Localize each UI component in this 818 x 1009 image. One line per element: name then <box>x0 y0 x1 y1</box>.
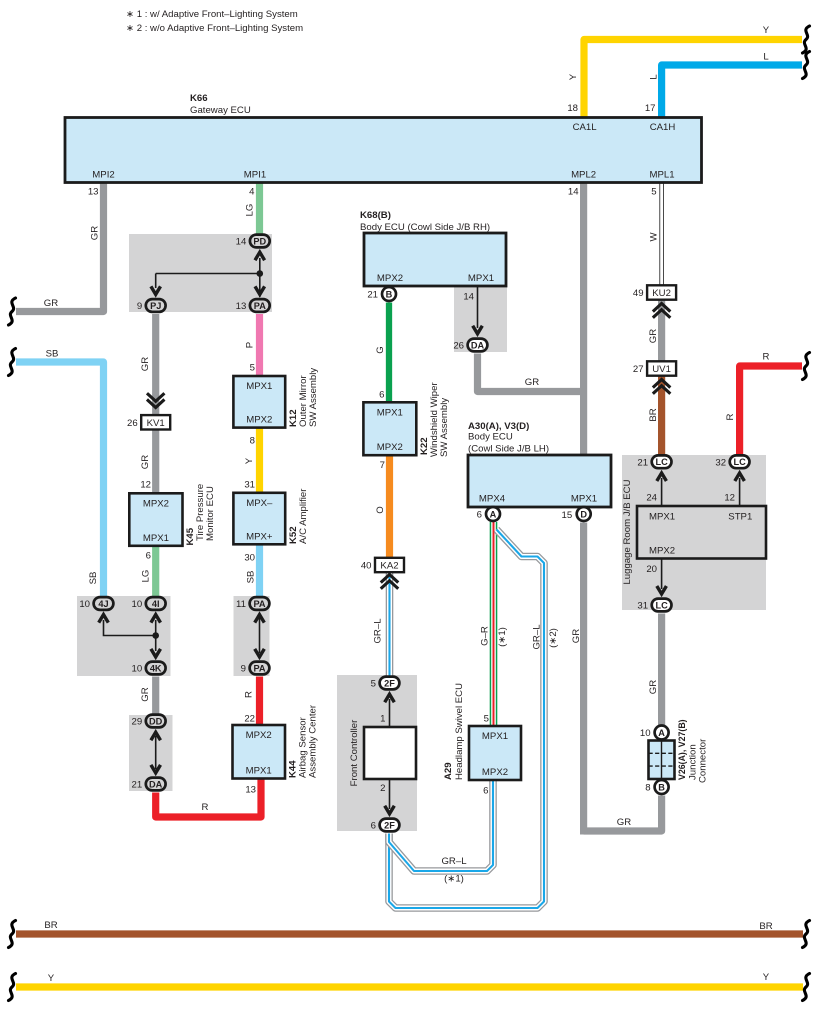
svg-text:B: B <box>658 782 665 792</box>
svg-text:13: 13 <box>236 301 247 312</box>
node 4I to 4J/4K distribution lines <box>99 615 161 657</box>
shield box of Luggage Room J/B ECU <box>622 455 766 610</box>
svg-text:2F: 2F <box>384 820 395 830</box>
wire GR through junction connector V26/V27 <box>658 740 665 780</box>
svg-text:G–R: G–R <box>480 626 491 646</box>
svg-text:30: 30 <box>244 553 255 564</box>
svg-text:14: 14 <box>236 237 247 248</box>
svg-text:R: R <box>244 691 255 698</box>
connector DA 21 <box>132 778 166 791</box>
svg-text:MPX1: MPX1 <box>246 766 272 777</box>
svg-text:MPX2: MPX2 <box>649 546 675 557</box>
line Luggage MPX2 pin 20 to LC 31 <box>646 559 666 595</box>
svg-text:R: R <box>202 802 209 813</box>
connector UV1 27 <box>633 361 676 392</box>
svg-text:13: 13 <box>245 785 256 796</box>
node PD to PJ/PA distribution lines <box>151 252 265 297</box>
connector 2F 6 <box>371 819 400 832</box>
connector LC 21 <box>637 455 671 468</box>
junction connector V26(A)/V27(B) box <box>649 719 709 783</box>
svg-text:Front Controller: Front Controller <box>349 719 360 786</box>
svg-text:L: L <box>763 52 769 63</box>
svg-text:26: 26 <box>127 418 138 429</box>
luggage room J/B ECU inner box <box>622 479 766 584</box>
wire GR from connector DA 26 joining MPL2 branch <box>478 354 584 392</box>
svg-text:21: 21 <box>367 290 378 301</box>
svg-text:12: 12 <box>140 480 151 491</box>
svg-text:(∗1): (∗1) <box>444 874 464 885</box>
svg-text:L: L <box>649 74 660 80</box>
svg-text:CA1L: CA1L <box>573 122 598 133</box>
svg-text:MPX2: MPX2 <box>482 767 508 778</box>
wire GR from MPL2 pin 14 to Body ECU LH <box>568 183 584 455</box>
svg-text:9: 9 <box>137 301 142 312</box>
connector PJ 9 <box>137 299 166 312</box>
wire GR-L (*2) from connector A to Front Controller 2F 6 <box>389 530 559 909</box>
svg-text:9: 9 <box>241 664 246 675</box>
svg-text:BR: BR <box>44 920 57 931</box>
svg-text:K68(B): K68(B) <box>360 210 391 221</box>
svg-text:Connector: Connector <box>698 738 709 783</box>
svg-text:GR: GR <box>140 357 151 371</box>
wire GR from connector PJ to KV1 and K45 pin 12 <box>140 314 156 492</box>
connector DA 26 <box>453 339 487 352</box>
svg-text:6: 6 <box>379 390 384 401</box>
svg-text:CA1H: CA1H <box>650 122 676 133</box>
wire G-R from connector A 6 to A29 pin 5 <box>480 522 509 725</box>
connector PD 14 <box>236 235 270 248</box>
wire O (orange) from K22 pin 7 to KA2 <box>375 456 390 560</box>
line Luggage MPX1 pin 24 to LC 21 <box>646 473 666 506</box>
svg-text:DA: DA <box>149 779 163 789</box>
svg-text:1: 1 <box>380 714 385 725</box>
svg-text:KU2: KU2 <box>652 288 671 299</box>
svg-text:MPI1: MPI1 <box>244 170 266 181</box>
wire Y (yellow) to CA1L pin 18 <box>567 25 802 118</box>
connector 4I 10 <box>132 597 166 610</box>
svg-text:15: 15 <box>562 510 573 521</box>
svg-text:DD: DD <box>149 716 163 726</box>
wire BR (brown) from UV1 to connector LC 21 <box>648 376 662 455</box>
line between connectors PA 11 and PA 9 <box>255 615 265 657</box>
wire P (pink) from connector PA 13 to K12 pin 5 <box>245 314 260 375</box>
connector DD 29 <box>132 715 166 728</box>
wire GR from connector D 15 down to junction wire <box>562 510 584 835</box>
svg-text:A/C Amplifier: A/C Amplifier <box>298 488 309 544</box>
shield box around PA(11)/PA(9) junction <box>234 596 270 676</box>
svg-text:LC: LC <box>655 600 668 610</box>
svg-text:P: P <box>245 342 256 348</box>
svg-text:MPI2: MPI2 <box>92 170 114 181</box>
svg-text:Assembly Center: Assembly Center <box>308 704 319 778</box>
svg-text:5: 5 <box>484 714 489 725</box>
wire W (white) from MPL1 pin 5 to KU2 <box>649 183 662 286</box>
svg-text:5: 5 <box>371 679 376 690</box>
svg-text:5: 5 <box>250 363 255 374</box>
svg-text:GR: GR <box>525 377 539 388</box>
svg-text:MPX1: MPX1 <box>649 512 675 523</box>
svg-text:SW Assembly: SW Assembly <box>308 368 319 427</box>
outer mirror SW assembly K12 box <box>233 368 319 428</box>
connector LC 31 <box>637 599 671 612</box>
break symbol left end of Y rail <box>9 974 16 1001</box>
connector KU2 49 <box>633 285 676 316</box>
break symbol right end of L wire <box>803 52 810 79</box>
line K68 pin 14 to connector DA 26 <box>463 287 482 334</box>
svg-text:SB: SB <box>246 571 257 584</box>
svg-text:6: 6 <box>477 510 482 521</box>
svg-text:32: 32 <box>715 457 726 468</box>
wire SB from K52 pin 30 to connector PA 11 <box>244 545 259 597</box>
front controller inner box <box>349 719 416 786</box>
svg-text:Gateway ECU: Gateway ECU <box>190 105 251 116</box>
wire GR-L (*1) from Front Controller 2F 6 to A29 pin 6 <box>389 781 493 885</box>
svg-text:6: 6 <box>371 821 376 832</box>
svg-text:MPX2: MPX2 <box>246 415 272 426</box>
svg-text:MPX2: MPX2 <box>246 730 272 741</box>
airbag sensor assembly center K44 box <box>233 704 319 778</box>
svg-text:∗ 2 : w/o Adaptive Front–Light: ∗ 2 : w/o Adaptive Front–Lighting System <box>126 23 303 34</box>
connector PA 11 <box>236 597 269 610</box>
svg-text:31: 31 <box>637 601 648 612</box>
svg-text:27: 27 <box>633 364 644 375</box>
svg-text:29: 29 <box>132 717 143 728</box>
svg-text:2F: 2F <box>384 678 395 688</box>
shield box around PD/PJ/PA junction <box>129 234 272 312</box>
svg-text:4I: 4I <box>152 599 160 609</box>
svg-text:Monitor ECU: Monitor ECU <box>205 486 216 541</box>
line Front Controller pin 2 to 2F 6 <box>380 779 394 814</box>
svg-text:Y: Y <box>568 73 579 80</box>
svg-text:7: 7 <box>380 460 385 471</box>
svg-text:12: 12 <box>724 493 735 504</box>
connector B 21 <box>367 287 396 301</box>
svg-text:GR: GR <box>140 455 151 469</box>
wire LG from MPI1 pin 4 to connector PD <box>245 183 260 235</box>
svg-text:MPX1: MPX1 <box>571 494 597 505</box>
svg-text:MPX–: MPX– <box>246 498 273 509</box>
svg-text:(Cowl Side J/B LH): (Cowl Side J/B LH) <box>468 444 549 455</box>
shield box around DA(26) junction <box>454 286 507 352</box>
svg-text:14: 14 <box>568 187 579 198</box>
wire GR from MPI2 pin 13 to left break <box>16 183 104 312</box>
headlamp swivel ECU A29 box <box>443 683 521 780</box>
svg-text:PA: PA <box>253 663 265 673</box>
svg-text:V26(A), V27(B): V26(A), V27(B) <box>677 719 687 780</box>
wire SB from left break to connector 4J <box>16 349 104 598</box>
svg-text:R: R <box>725 413 736 420</box>
wire LG from K45 pin 6 to connector 4I <box>141 546 156 597</box>
svg-text:49: 49 <box>633 288 644 299</box>
connector 4K 10 <box>132 662 166 675</box>
connector KV1 26 <box>127 394 170 429</box>
svg-text:21: 21 <box>637 457 648 468</box>
svg-text:KA2: KA2 <box>380 561 398 572</box>
wire Y bottom rail <box>16 972 803 987</box>
svg-text:4: 4 <box>249 187 255 198</box>
break symbol left end of GR wire <box>9 298 16 325</box>
svg-text:10: 10 <box>79 599 90 610</box>
legend note *1 <box>126 9 298 20</box>
break symbol left end of SB wire <box>9 349 16 376</box>
svg-text:GR: GR <box>90 226 101 240</box>
break symbol left end of BR rail <box>9 921 16 948</box>
svg-text:O: O <box>375 506 386 513</box>
svg-text:MPL2: MPL2 <box>571 170 596 181</box>
svg-text:A30(A), V3(D): A30(A), V3(D) <box>468 421 529 432</box>
svg-text:2: 2 <box>380 783 385 794</box>
svg-text:40: 40 <box>361 561 372 572</box>
svg-text:GR: GR <box>140 687 151 701</box>
svg-text:6: 6 <box>146 551 151 562</box>
wire Y from K12 pin 8 to K52 pin 31 <box>244 428 260 492</box>
svg-text:(∗1): (∗1) <box>497 627 508 647</box>
svg-text:Y: Y <box>763 972 770 983</box>
svg-text:8: 8 <box>645 783 650 794</box>
svg-text:R: R <box>763 352 770 363</box>
line between connectors DD and DA <box>151 732 161 773</box>
body ECU A30(A)/V3(D) box <box>468 421 611 507</box>
connector PA 13 <box>236 299 270 312</box>
svg-text:Body ECU (Cowl Side J/B RH): Body ECU (Cowl Side J/B RH) <box>360 222 490 233</box>
svg-text:GR: GR <box>44 298 58 309</box>
shield box of Front Controller <box>337 675 417 831</box>
svg-text:17: 17 <box>645 103 656 114</box>
svg-text:21: 21 <box>132 780 143 791</box>
svg-text:MPX2: MPX2 <box>377 442 403 453</box>
svg-text:20: 20 <box>646 564 657 575</box>
svg-text:D: D <box>580 509 587 519</box>
legend note *2 <box>126 23 303 34</box>
svg-text:∗ 1 : w/ Adaptive Front–Lighti: ∗ 1 : w/ Adaptive Front–Lighting System <box>126 9 298 20</box>
svg-text:KV1: KV1 <box>147 418 165 429</box>
A/C amplifier K52 box <box>233 488 309 545</box>
connector LC 32 <box>715 455 749 468</box>
svg-text:G: G <box>375 346 386 353</box>
svg-text:LG: LG <box>245 204 256 217</box>
wire G (green) from connector B 21 to K22 pin 6 <box>375 303 389 402</box>
svg-text:Luggage Room J/B ECU: Luggage Room J/B ECU <box>622 479 633 584</box>
wire GR from connector B 8 down and left to D branch <box>584 796 662 832</box>
wire GR from KU2 to UV1 <box>648 300 662 361</box>
tire pressure monitor ECU K45 box <box>129 484 216 546</box>
svg-text:22: 22 <box>244 714 255 725</box>
svg-text:Y: Y <box>48 973 55 984</box>
svg-text:13: 13 <box>88 187 99 198</box>
svg-text:BR: BR <box>648 408 659 421</box>
svg-text:DA: DA <box>471 340 485 350</box>
svg-text:Y: Y <box>244 457 255 464</box>
line Front Controller pin 1 to 2F 5 <box>380 694 394 727</box>
body ECU K68(B) box <box>360 210 506 286</box>
svg-text:26: 26 <box>453 341 464 352</box>
svg-text:MPL1: MPL1 <box>649 170 674 181</box>
svg-text:Headlamp Swivel ECU: Headlamp Swivel ECU <box>454 683 465 780</box>
svg-text:8: 8 <box>250 436 255 447</box>
svg-text:4K: 4K <box>150 663 162 673</box>
svg-text:4J: 4J <box>98 599 108 609</box>
wire GR from connector LC 31 to connector A 10 <box>648 614 662 727</box>
svg-text:A29: A29 <box>443 762 454 780</box>
gateway ECU K66 box <box>65 93 702 183</box>
svg-text:MPX1: MPX1 <box>468 273 494 284</box>
break symbol right end of Y rail <box>803 974 810 1001</box>
svg-text:PJ: PJ <box>150 301 161 311</box>
connector B 8 <box>645 780 668 794</box>
svg-text:A: A <box>490 509 497 519</box>
svg-text:K66: K66 <box>190 93 208 104</box>
shield box around 4J/4I/4K junction <box>77 596 171 676</box>
svg-text:14: 14 <box>463 292 474 303</box>
svg-text:MPX1: MPX1 <box>482 731 508 742</box>
svg-text:GR–L: GR–L <box>373 618 384 644</box>
wire R from right break to connector LC 32 <box>725 352 802 456</box>
connector A 10 <box>640 726 669 740</box>
svg-text:MPX1: MPX1 <box>143 533 169 544</box>
svg-text:PA: PA <box>254 301 266 311</box>
svg-text:LC: LC <box>733 457 746 467</box>
connector KA2 40 <box>361 558 404 588</box>
break symbol right end of R wire <box>803 353 810 380</box>
break symbol right end of BR rail <box>803 921 810 948</box>
svg-text:MPX1: MPX1 <box>377 407 403 418</box>
windshield wiper SW assembly K22 box <box>363 382 450 457</box>
line Luggage STP1 pin 12 to LC 32 <box>724 473 744 506</box>
wire L (blue) to CA1H pin 17 <box>645 52 802 118</box>
svg-text:GR: GR <box>571 629 582 643</box>
svg-text:PD: PD <box>253 236 266 246</box>
svg-text:MPX1: MPX1 <box>246 381 272 392</box>
svg-text:B: B <box>386 289 393 299</box>
svg-text:UV1: UV1 <box>652 364 671 375</box>
shield box around DD/DA junction <box>129 715 173 791</box>
svg-text:GR: GR <box>648 680 659 694</box>
svg-text:11: 11 <box>236 599 246 610</box>
connector 2F 5 <box>371 677 400 690</box>
svg-text:GR: GR <box>617 817 631 828</box>
svg-text:Body ECU: Body ECU <box>468 432 513 443</box>
connector D 15 <box>577 507 591 521</box>
svg-text:W: W <box>649 232 660 242</box>
svg-text:MPX+: MPX+ <box>246 531 273 542</box>
svg-text:31: 31 <box>244 480 255 491</box>
wire GR-L from KA2 to Front Controller 2F 5 <box>373 573 390 677</box>
svg-text:MPX2: MPX2 <box>143 498 169 509</box>
svg-text:18: 18 <box>567 103 578 114</box>
wire R (red) from connector DA 21 to K44 pin 13 <box>156 780 261 818</box>
break symbol right end of Y wire <box>803 26 810 53</box>
svg-text:10: 10 <box>132 664 143 675</box>
svg-text:6: 6 <box>483 786 488 797</box>
svg-text:GR: GR <box>648 329 659 343</box>
svg-text:LG: LG <box>141 570 152 583</box>
wire BR bottom rail <box>16 920 803 934</box>
svg-text:5: 5 <box>651 187 656 198</box>
svg-text:Y: Y <box>763 25 770 36</box>
svg-text:10: 10 <box>640 728 651 739</box>
svg-text:STP1: STP1 <box>728 512 752 523</box>
svg-text:LC: LC <box>655 457 668 467</box>
svg-text:GR–L: GR–L <box>441 856 467 867</box>
svg-text:10: 10 <box>132 599 143 610</box>
svg-text:SB: SB <box>46 349 59 360</box>
connector A 6 <box>477 507 500 521</box>
svg-text:SW Assembly: SW Assembly <box>439 398 450 457</box>
connector PA 9 <box>241 662 270 675</box>
svg-text:GR–L: GR–L <box>532 624 543 650</box>
svg-text:24: 24 <box>646 493 657 504</box>
svg-text:BR: BR <box>759 921 772 932</box>
svg-text:MPX4: MPX4 <box>479 494 506 505</box>
connector 4J 10 <box>79 597 113 610</box>
svg-text:SB: SB <box>88 572 99 585</box>
svg-text:A: A <box>658 728 665 738</box>
svg-text:MPX2: MPX2 <box>377 273 403 284</box>
svg-text:PA: PA <box>253 599 265 609</box>
wire R from connector PA 9 to K44 pin 22 <box>244 677 260 725</box>
svg-text:(∗2): (∗2) <box>548 628 559 648</box>
wire GR from connector 4K to connector DD <box>140 677 156 715</box>
